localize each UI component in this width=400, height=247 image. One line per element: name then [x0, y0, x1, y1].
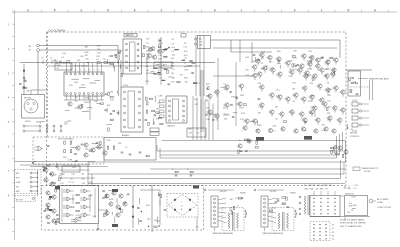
svg-text:33K: 33K	[276, 198, 280, 200]
center bottom label box	[187, 128, 206, 137]
svg-text:10K: 10K	[110, 100, 114, 102]
svg-text:←: ←	[286, 192, 288, 194]
svg-text:470: 470	[189, 133, 192, 135]
svg-text:REC: REC	[16, 191, 21, 193]
svg-text:ERASE: ERASE	[290, 191, 297, 194]
svg-text:C2: C2	[125, 147, 127, 149]
wires above input	[15, 161, 96, 163]
svg-text:1M: 1M	[307, 61, 310, 63]
svg-text:6.8K: 6.8K	[109, 199, 114, 201]
main board dashed outline	[47, 32, 347, 186]
svg-text:47K: 47K	[310, 83, 314, 85]
svg-text:1M: 1M	[327, 119, 330, 121]
svg-text:REC/PB: REC/PB	[270, 191, 277, 193]
svg-text:6.8K: 6.8K	[325, 64, 330, 66]
bus wire y178	[120, 160, 341, 179]
mechanism 2 connector	[261, 196, 268, 227]
svg-text:P3: P3	[332, 232, 334, 234]
dashed link	[350, 86, 370, 88]
svg-text:33K: 33K	[26, 90, 30, 92]
wire motor up	[37, 63, 39, 95]
vertical wires x147-204	[146, 56, 148, 85]
bus wire y151	[157, 132, 343, 151]
svg-text:CONTROL: CONTROL	[350, 136, 359, 138]
mechanism 1 fan wires	[218, 198, 226, 200]
svg-text:4.7K: 4.7K	[293, 57, 298, 59]
connector CN201 box	[198, 36, 211, 49]
svg-text:NOTES: NOTES	[364, 171, 371, 173]
svg-text:REMOTE: REMOTE	[345, 193, 354, 195]
svg-text:HEADPHONE JACK: HEADPHONE JACK	[369, 77, 390, 80]
vertical bus wires	[192, 96, 194, 140]
motor board opamp	[38, 146, 42, 151]
left bus verticals	[87, 162, 89, 185]
svg-text:P4: P4	[332, 235, 334, 237]
svg-text:→ 5.9V: → 5.9V	[352, 185, 359, 187]
svg-text:6.8K: 6.8K	[206, 95, 211, 97]
svg-text:TO AC OUTLET: TO AC OUTLET	[377, 206, 392, 209]
svg-text:EXT SP: EXT SP	[16, 200, 23, 202]
IC102 pin stub wires	[66, 63, 68, 74]
svg-text:C33: C33	[61, 174, 64, 176]
bridge dashed diamond	[167, 194, 198, 218]
svg-text:22K: 22K	[235, 198, 239, 200]
IC601 SERVO label	[124, 34, 137, 37]
svg-text:· B+ · MOTOR · SOL · MUTE: · B+ · MOTOR · SOL · MUTE · PB	[303, 185, 333, 187]
wire	[213, 75, 252, 77]
svg-text:}: }	[245, 209, 248, 218]
svg-text:N: N	[374, 8, 376, 12]
svg-text:6.8K: 6.8K	[158, 58, 163, 60]
wire	[208, 189, 234, 191]
wire verticals x118-121	[118, 60, 120, 96]
MOTOR board dashed box	[33, 137, 104, 164]
mechanism 2 dashed enclosure	[272, 208, 294, 231]
IC201 pins	[124, 91, 126, 93]
inline parts on bus	[175, 171, 178, 173]
svg-text:REC/PB: REC/PB	[220, 191, 227, 193]
svg-text:1: 1	[66, 70, 67, 72]
motor M101	[24, 99, 38, 113]
left ruler line	[14, 12, 16, 240]
svg-text:1M: 1M	[292, 89, 295, 91]
svg-text:P1: P1	[332, 225, 334, 227]
svg-text:LINE: LINE	[16, 182, 21, 184]
IC201 block	[121, 87, 143, 132]
svg-text:1M: 1M	[230, 199, 233, 201]
terminal grid CN901	[310, 196, 340, 217]
svg-text:2: 2	[71, 70, 72, 72]
IC102 system control	[64, 72, 104, 96]
svg-text:P5: P5	[332, 239, 334, 241]
svg-text:47K: 47K	[251, 61, 255, 63]
transformer T1	[228, 213, 230, 229]
wires	[60, 169, 90, 171]
shield box	[104, 138, 156, 161]
svg-text:MECHA: MECHA	[350, 132, 358, 135]
svg-text:D1: D1	[156, 119, 158, 121]
wire	[39, 45, 118, 47]
motor board transistors	[76, 146, 80, 150]
svg-text:←: ←	[236, 192, 238, 194]
input vertical wire	[37, 170, 39, 196]
svg-text:D1: D1	[197, 133, 199, 135]
dense label blobs	[165, 48, 168, 49]
svg-text:33K: 33K	[206, 119, 210, 121]
mechanism 1 parts	[238, 198, 241, 200]
svg-text:1M: 1M	[85, 55, 88, 57]
input dashed box 2	[15, 196, 36, 202]
IC301 left pin boxes	[160, 100, 165, 103]
svg-text:1M: 1M	[172, 78, 175, 80]
svg-text:4.7K: 4.7K	[270, 68, 275, 70]
transistor field Q201-Q230	[260, 53, 264, 57]
svg-text:47K: 47K	[71, 207, 75, 209]
connector pins CN101	[37, 44, 40, 47]
legend box	[353, 167, 360, 171]
motor board scatter	[74, 154, 77, 155]
svg-text:4.7K: 4.7K	[276, 95, 281, 97]
svg-text:5: 5	[84, 70, 85, 72]
svg-text:7: 7	[94, 70, 95, 72]
svg-text:3: 3	[75, 70, 76, 72]
svg-text:22K: 22K	[327, 113, 331, 115]
svg-text:NOTE: VOLTAGES TAKEN: NOTE: VOLTAGES TAKEN	[340, 219, 365, 222]
left diode column	[23, 64, 25, 95]
svg-text:(TAPE MECHANISM A): (TAPE MECHANISM A)	[212, 232, 233, 235]
svg-text:BA3302: BA3302	[168, 125, 176, 128]
svg-text:1M: 1M	[275, 107, 278, 109]
motor M101 enclosure	[22, 95, 45, 119]
IC601 servo block	[123, 39, 142, 74]
mechanism 1 dashed enclosure	[222, 208, 244, 231]
bus wire y155	[160, 134, 340, 155]
transistor field Q301-Q330	[225, 85, 229, 89]
jack symbols	[352, 102, 358, 106]
svg-text:47K: 47K	[77, 60, 81, 62]
svg-text:33K: 33K	[289, 61, 293, 63]
svg-text:56: 56	[71, 179, 73, 181]
amp inner wires	[61, 188, 63, 222]
wires bottom right	[340, 195, 344, 197]
svg-text:CORD: CORD	[377, 202, 384, 204]
svg-text:}: }	[295, 209, 298, 218]
svg-text:WAVEFORM AT TP: WAVEFORM AT TP	[362, 167, 379, 170]
svg-text:56: 56	[60, 178, 62, 180]
svg-text:0.01: 0.01	[72, 167, 76, 169]
svg-text:MOTOR: MOTOR	[24, 97, 32, 99]
svg-text:ERASE: ERASE	[240, 191, 247, 194]
svg-text:6.8K: 6.8K	[158, 95, 163, 97]
board split dashed vertical	[47, 32, 49, 137]
amp inner resistors	[76, 194, 79, 196]
amp bottom wire	[99, 209, 109, 211]
svg-text:47K: 47K	[97, 46, 101, 48]
wire below motor board	[30, 166, 108, 168]
bus wire y162	[88, 141, 346, 162]
svg-text:K: K	[294, 8, 296, 12]
IC301 pins	[169, 100, 171, 102]
relay boxes	[150, 128, 159, 131]
transformer T2	[278, 213, 280, 229]
input column dashed box	[15, 170, 42, 194]
svg-text:470: 470	[157, 113, 160, 115]
headphone jack box J101	[348, 71, 361, 96]
wire	[369, 80, 371, 100]
svg-text:DC-DC/MAIN: DC-DC/MAIN	[49, 28, 66, 32]
svg-text:4.7K: 4.7K	[171, 81, 176, 83]
svg-text:H: H	[214, 8, 216, 12]
svg-text:M101: M101	[26, 121, 32, 123]
terminal grid 2	[310, 222, 330, 241]
svg-text:100: 100	[195, 104, 198, 106]
svg-text:C33: C33	[82, 183, 85, 185]
diode ladder	[132, 186, 134, 228]
connector marks	[256, 137, 264, 141]
wires	[108, 190, 112, 192]
amp left transistors	[46, 191, 50, 195]
mechanism 1 connector	[211, 196, 218, 227]
motor board resistors	[64, 141, 66, 144]
svg-text:33K: 33K	[84, 47, 88, 49]
headphone amp cluster	[105, 194, 109, 198]
top ruler line	[12, 11, 397, 13]
bus wire y140	[162, 140, 346, 142]
wire field bottom	[88, 183, 345, 185]
power amp box IC401	[60, 186, 99, 224]
svg-text:MOTOR BOARD: MOTOR BOARD	[58, 137, 74, 140]
IC601 pins	[126, 43, 128, 45]
svg-text:22K: 22K	[206, 84, 210, 86]
preamp box	[62, 166, 80, 172]
pins row above motor board	[39, 125, 41, 127]
grid feed wires	[313, 191, 315, 195]
CN402	[193, 186, 199, 189]
svg-text:0.01: 0.01	[194, 99, 198, 101]
wire bus left	[20, 62, 215, 64]
svg-text:1M: 1M	[171, 62, 174, 64]
top stubs	[42, 60, 44, 64]
IC601 left components	[113, 63, 115, 68]
svg-text:6.8K: 6.8K	[257, 125, 262, 127]
svg-text:6.8K: 6.8K	[84, 52, 89, 54]
svg-text:· GND · SW · +5V · REC · F: · GND · SW · +5V · REC · FF	[303, 189, 329, 191]
bridge diodes	[174, 199, 176, 201]
svg-text:SW: SW	[199, 45, 202, 47]
mechanism 2 parts	[282, 197, 285, 199]
transformer pins	[299, 196, 301, 198]
IC102 bottom pins	[66, 93, 68, 95]
AC plug	[369, 199, 373, 203]
svg-text:1M: 1M	[110, 92, 113, 94]
bus wire y174	[88, 162, 344, 174]
svg-text:220: 220	[60, 183, 63, 185]
svg-text:1M: 1M	[347, 212, 350, 214]
svg-text:(TAPE MECHANISM B): (TAPE MECHANISM B)	[262, 232, 283, 235]
svg-text:SPEED ADJ: SPEED ADJ	[156, 64, 167, 67]
svg-text:R37: R37	[118, 143, 121, 145]
svg-text:AN6650: AN6650	[122, 134, 130, 137]
adj box	[154, 62, 172, 68]
svg-text:L-CH: L-CH	[352, 100, 357, 102]
preamp cluster	[44, 168, 48, 172]
power transformer T901	[304, 196, 306, 214]
svg-text:4.7K: 4.7K	[351, 197, 356, 199]
svg-text:470: 470	[205, 99, 208, 101]
svg-text:REF TO CHASSIS GND: REF TO CHASSIS GND	[340, 225, 362, 228]
D301 cluster	[247, 139, 251, 143]
svg-text:33K: 33K	[326, 69, 330, 71]
svg-text:22K: 22K	[229, 207, 233, 209]
svg-text:4: 4	[80, 70, 81, 72]
inline resistors on bus	[97, 62, 100, 64]
IC102 top pins	[66, 73, 68, 75]
transistor row y129	[243, 126, 247, 130]
svg-text:1M: 1M	[97, 49, 100, 51]
svg-text:10K: 10K	[353, 205, 357, 207]
svg-text:4.7K: 4.7K	[240, 119, 245, 121]
svg-text:G: G	[187, 8, 189, 12]
IC201 side parts	[108, 92, 110, 95]
svg-text:22K: 22K	[327, 95, 331, 97]
svg-text:C: C	[80, 8, 82, 12]
svg-text:1M: 1M	[258, 113, 261, 115]
svg-text:0.1: 0.1	[71, 182, 74, 184]
parts box B101	[55, 63, 72, 70]
svg-text:22K: 22K	[258, 83, 262, 85]
wire	[258, 189, 284, 191]
svg-text:A: A	[27, 8, 29, 12]
Q330 cluster right	[338, 146, 342, 150]
svg-text:470: 470	[89, 182, 92, 184]
svg-text:D1: D1	[95, 97, 97, 99]
IC102 bottom pin stubs	[66, 95, 68, 100]
bus wire y169	[150, 168, 345, 170]
svg-text:56: 56	[75, 97, 77, 99]
svg-text:REG: REG	[57, 65, 62, 67]
svg-text:22K: 22K	[96, 56, 100, 58]
left ruler ticks	[12, 11, 14, 13]
op-amps	[67, 189, 70, 193]
svg-text:AC POWER: AC POWER	[377, 198, 389, 201]
svg-text:4.7K: 4.7K	[310, 107, 315, 109]
svg-text:IC201: IC201	[123, 85, 129, 87]
mechanism 2 fan wires	[268, 198, 276, 200]
bus wire y158	[160, 136, 337, 158]
svg-text:B: B	[54, 8, 56, 12]
svg-text:6: 6	[89, 70, 90, 72]
svg-text:0.1: 0.1	[75, 101, 78, 103]
center verticals	[200, 70, 202, 132]
below IC102 parts	[68, 102, 72, 106]
svg-text:P2: P2	[332, 228, 334, 230]
svg-text:WITH DIGITAL VOLTMETER: WITH DIGITAL VOLTMETER	[340, 222, 366, 225]
svg-text:47K: 47K	[229, 210, 233, 212]
svg-text:IC102 LB1234: IC102 LB1234	[74, 66, 89, 68]
CN401 connectors	[112, 189, 118, 192]
svg-text:E: E	[134, 8, 136, 12]
small parts right of servo	[158, 49, 162, 53]
adjust arrow	[162, 48, 169, 54]
svg-text:C355: C355	[106, 140, 111, 142]
bottom-left board dashed outline	[42, 186, 204, 231]
IC102 inner marks	[95, 80, 100, 82]
wire top bus	[211, 39, 341, 41]
small box C	[181, 34, 186, 38]
label HEADPHONE JACK	[358, 78, 368, 80]
svg-text:SERVO: SERVO	[126, 35, 134, 37]
top ruler ticks	[14, 10, 16, 12]
ground marks below board	[344, 186, 346, 189]
svg-text:D: D	[107, 8, 109, 12]
svg-text:33K: 33K	[277, 51, 281, 53]
IC301 block	[166, 96, 187, 123]
remote box	[345, 196, 368, 216]
svg-text:8: 8	[98, 70, 99, 72]
svg-text:33K: 33K	[146, 205, 150, 207]
